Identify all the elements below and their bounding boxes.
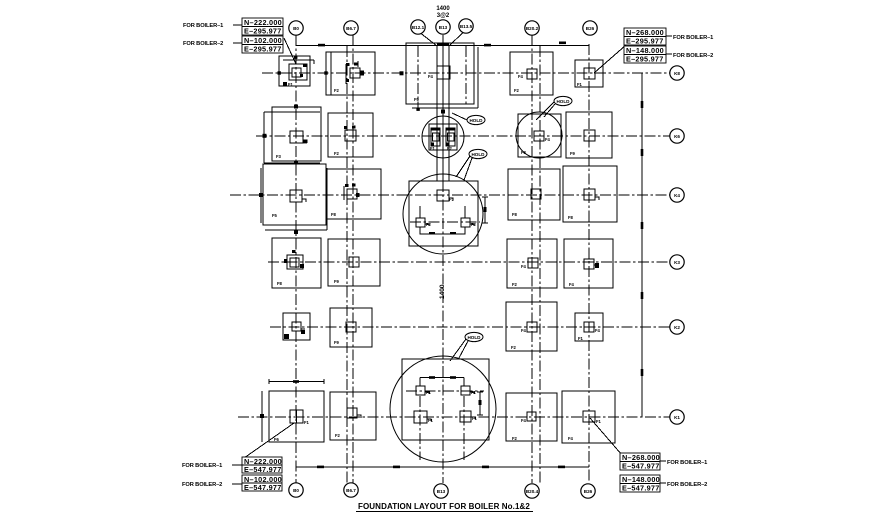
svg-text:F2: F2	[514, 88, 520, 93]
svg-text:HOLD: HOLD	[471, 152, 485, 157]
svg-text:F1: F1	[471, 390, 477, 395]
svg-text:F9: F9	[334, 340, 340, 345]
grid bubble B6.7 bottom	[344, 483, 358, 497]
node junction below F9	[441, 110, 445, 114]
svg-text:B13: B13	[437, 489, 446, 494]
svg-text:B0: B0	[293, 26, 299, 31]
grid line B13.1	[448, 46, 450, 181]
grid bubble K8	[670, 66, 684, 80]
svg-text:HOLD: HOLD	[467, 335, 481, 340]
svg-text:F9: F9	[334, 279, 340, 284]
grid bubble B0 bottom	[289, 483, 303, 497]
svg-text:F1: F1	[577, 82, 583, 87]
svg-text:F1: F1	[304, 420, 310, 425]
svg-text:K8: K8	[674, 71, 680, 76]
pad F2 at B6.7/K1	[330, 392, 376, 440]
wire bottom boundary line	[296, 466, 589, 468]
grid line K3	[268, 261, 670, 263]
svg-text:B20.4: B20.4	[526, 489, 539, 494]
annotation top-left boiler2	[183, 36, 296, 64]
svg-text:FOR BOILER–1: FOR BOILER–1	[182, 463, 222, 469]
svg-text:F2: F2	[511, 345, 517, 350]
grid bubble B26 top	[583, 21, 597, 35]
node junction above F3	[294, 105, 298, 109]
grid line B13.5 stub	[465, 46, 467, 104]
svg-text:1400: 1400	[439, 284, 446, 299]
svg-text:E–547.977: E–547.977	[244, 465, 282, 474]
grid line B6.5	[346, 46, 348, 483]
svg-text:F9: F9	[570, 151, 576, 156]
node junction below F3	[294, 161, 298, 165]
svg-text:B0: B0	[293, 488, 299, 493]
svg-text:F1: F1	[472, 416, 478, 421]
svg-text:F8: F8	[568, 215, 574, 220]
wire top boundary line	[296, 45, 589, 47]
svg-text:HOLD: HOLD	[556, 99, 570, 104]
grid line B20.2	[531, 35, 533, 483]
svg-text:K4: K4	[674, 193, 680, 198]
pad F9 at B6.7/K2	[330, 308, 372, 347]
svg-text:B12.1: B12.1	[412, 25, 425, 30]
pad F2 at B20.2/K2	[506, 302, 557, 351]
svg-text:FOR BOILER–1: FOR BOILER–1	[673, 35, 713, 41]
svg-text:B20.2: B20.2	[526, 26, 539, 31]
svg-text:F1: F1	[426, 390, 432, 395]
svg-text:F2: F2	[426, 222, 432, 227]
svg-text:FOR BOILER–2: FOR BOILER–2	[673, 53, 713, 59]
svg-text:F3: F3	[521, 150, 527, 155]
grid bubble K6	[670, 129, 684, 143]
grid bubble K1	[670, 410, 684, 424]
hold label D	[450, 332, 483, 361]
pad F1 at B0/K8	[278, 56, 315, 88]
grid line K1	[238, 416, 670, 418]
annotation bottom-left boiler2	[182, 475, 282, 492]
pad F4 at B26/K1	[562, 391, 622, 455]
svg-text:F6: F6	[274, 437, 280, 442]
svg-text:FOR BOILER–1: FOR BOILER–1	[183, 23, 223, 29]
svg-text:E–295.977: E–295.977	[244, 27, 282, 36]
annotation top-right boiler2	[624, 46, 713, 64]
pad F9 at B26/K6	[566, 112, 612, 158]
pad F8 at B20.2/K4	[508, 169, 560, 220]
svg-text:E–295.977: E–295.977	[626, 37, 664, 46]
svg-text:F4: F4	[518, 74, 524, 79]
pad F1 at B26/K8	[575, 45, 626, 87]
grid line B6.7	[352, 35, 354, 483]
svg-text:F1: F1	[449, 197, 455, 202]
svg-text:K2: K2	[674, 325, 680, 330]
svg-text:B6.7: B6.7	[346, 488, 356, 493]
svg-text:K6: K6	[674, 134, 680, 139]
grid line K4	[230, 194, 670, 196]
pad F8 at B6.7/K4	[327, 169, 381, 219]
svg-text:K1: K1	[674, 415, 680, 420]
svg-text:F2: F2	[447, 146, 453, 151]
svg-text:F2: F2	[335, 433, 341, 438]
grid bubble B13 top	[436, 20, 450, 34]
svg-text:F1: F1	[288, 82, 294, 87]
svg-text:F9: F9	[414, 97, 420, 102]
svg-text:F4: F4	[428, 74, 434, 79]
grid bubble B20.4 bottom	[525, 484, 539, 498]
title	[356, 502, 533, 512]
pad F3 at B0/K6	[263, 107, 322, 163]
svg-text:E–295.977: E–295.977	[244, 45, 282, 54]
grid bubble K4	[670, 188, 684, 202]
svg-text:F4: F4	[521, 328, 527, 333]
svg-text:F4: F4	[521, 264, 527, 269]
svg-text:B26: B26	[584, 489, 593, 494]
svg-text:F2: F2	[334, 151, 340, 156]
grid bubble K2	[670, 320, 684, 334]
hold circle at B13/K6	[422, 116, 464, 158]
pad F9 at B13/K8	[406, 43, 478, 108]
svg-text:K3: K3	[674, 260, 680, 265]
pad F7 at B0/K2	[283, 313, 310, 340]
svg-text:F2: F2	[512, 436, 518, 441]
svg-text:B13.5: B13.5	[460, 24, 473, 29]
annotation bottom-right boiler2	[620, 475, 707, 493]
grid line B26	[588, 44, 590, 483]
grid bubble K3	[670, 255, 684, 269]
grid bubble B26 bottom	[581, 484, 595, 498]
svg-text:F1: F1	[430, 146, 436, 151]
grid line B12.1 stub	[417, 46, 419, 108]
hold label A	[452, 113, 485, 125]
tick marks on top boundary	[318, 42, 566, 47]
svg-text:B6.7: B6.7	[346, 26, 356, 31]
pad F8 at B26/K4	[563, 166, 617, 222]
svg-text:F1: F1	[578, 336, 584, 341]
svg-text:1400: 1400	[436, 6, 450, 12]
pad F2 at B6.7/K8	[326, 52, 375, 95]
pad F8 at B0/K3	[272, 238, 321, 288]
wire right boundary line	[641, 73, 643, 417]
grid line B12.9	[436, 46, 438, 181]
annotation bottom-right boiler1	[620, 453, 707, 471]
pad F2 at B20.2/K8	[510, 52, 553, 95]
grid line B13	[442, 35, 444, 181]
annotation top-right boiler1	[624, 28, 713, 46]
hold label B	[456, 149, 487, 180]
grid bubble B12.1 top	[411, 20, 437, 46]
tick marks on right boundary	[641, 101, 644, 376]
pad F2 at B20.2/K1	[506, 393, 557, 441]
grid bubble B20.2 top	[525, 21, 539, 35]
svg-text:F2: F2	[471, 222, 477, 227]
svg-text:B26: B26	[586, 26, 595, 31]
node junction left of F9	[400, 71, 404, 75]
svg-text:3@2: 3@2	[437, 13, 450, 19]
annotation bottom-left boiler1	[182, 457, 282, 474]
svg-text:F8: F8	[331, 212, 337, 217]
grid line B0	[295, 35, 297, 483]
svg-text:F1: F1	[596, 419, 602, 424]
grid line K6	[256, 135, 670, 137]
svg-text:FOR BOILER–1: FOR BOILER–1	[667, 460, 707, 466]
svg-text:F3: F3	[276, 154, 282, 159]
grid line K2	[270, 326, 670, 328]
svg-text:FOR BOILER–2: FOR BOILER–2	[182, 482, 222, 488]
grid bubble B0 top	[289, 21, 303, 35]
hold circle at B20.2/K6	[516, 112, 562, 158]
pad F2 at B20.2/K3	[507, 239, 557, 288]
annotation top-left boiler1	[183, 18, 283, 36]
svg-text:F8: F8	[277, 281, 283, 286]
pad F5 at B0/K4	[259, 164, 327, 230]
svg-text:E–547.977: E–547.977	[622, 462, 660, 471]
grid bubble B13.5 top	[449, 19, 473, 46]
hold label C	[536, 96, 572, 120]
hold circle big at B13/K1	[390, 356, 496, 462]
node B12.1 end dot	[416, 108, 419, 111]
svg-text:F2: F2	[512, 282, 518, 287]
pad F6 at B0/K1	[244, 379, 324, 458]
grid bubble B13 bottom	[434, 484, 448, 498]
pad F1 at B26/K2	[575, 313, 603, 341]
grid bubble B6.7 top	[344, 21, 358, 35]
grid line B20.4	[539, 46, 541, 483]
node junction below F5	[294, 230, 298, 234]
svg-text:F2: F2	[334, 88, 340, 93]
svg-text:B13: B13	[439, 25, 448, 30]
svg-text:FOR BOILER–2: FOR BOILER–2	[667, 482, 707, 488]
svg-text:F8: F8	[512, 212, 518, 217]
grid line K8	[262, 72, 670, 74]
pad F9 at B6.7/K3	[328, 239, 380, 286]
svg-text:F4: F4	[595, 328, 601, 333]
hold circle big at B13/K4	[403, 174, 488, 254]
svg-text:E–547.977: E–547.977	[244, 483, 282, 492]
svg-text:F4: F4	[569, 282, 575, 287]
svg-text:FOR BOILER–2: FOR BOILER–2	[183, 41, 223, 47]
svg-text:HOLD: HOLD	[469, 118, 483, 123]
svg-text:E–295.977: E–295.977	[626, 55, 664, 64]
pad F2 at B6.7/K6	[328, 113, 373, 157]
svg-text:F4: F4	[568, 436, 574, 441]
svg-text:F4: F4	[521, 418, 527, 423]
dimension text above B13	[436, 6, 450, 19]
svg-text:E–547.977: E–547.977	[622, 484, 660, 493]
tick marks on bottom boundary	[317, 466, 565, 469]
pad F4 at B26/K3	[564, 239, 613, 288]
svg-text:FOUNDATION LAYOUT FOR BOILE: FOUNDATION LAYOUT FOR BOILER No.1&2	[358, 502, 530, 511]
node K8 junction right of F1	[324, 71, 327, 74]
svg-text:F1: F1	[428, 418, 434, 423]
svg-text:F4: F4	[545, 137, 551, 142]
svg-text:F5: F5	[272, 213, 278, 218]
